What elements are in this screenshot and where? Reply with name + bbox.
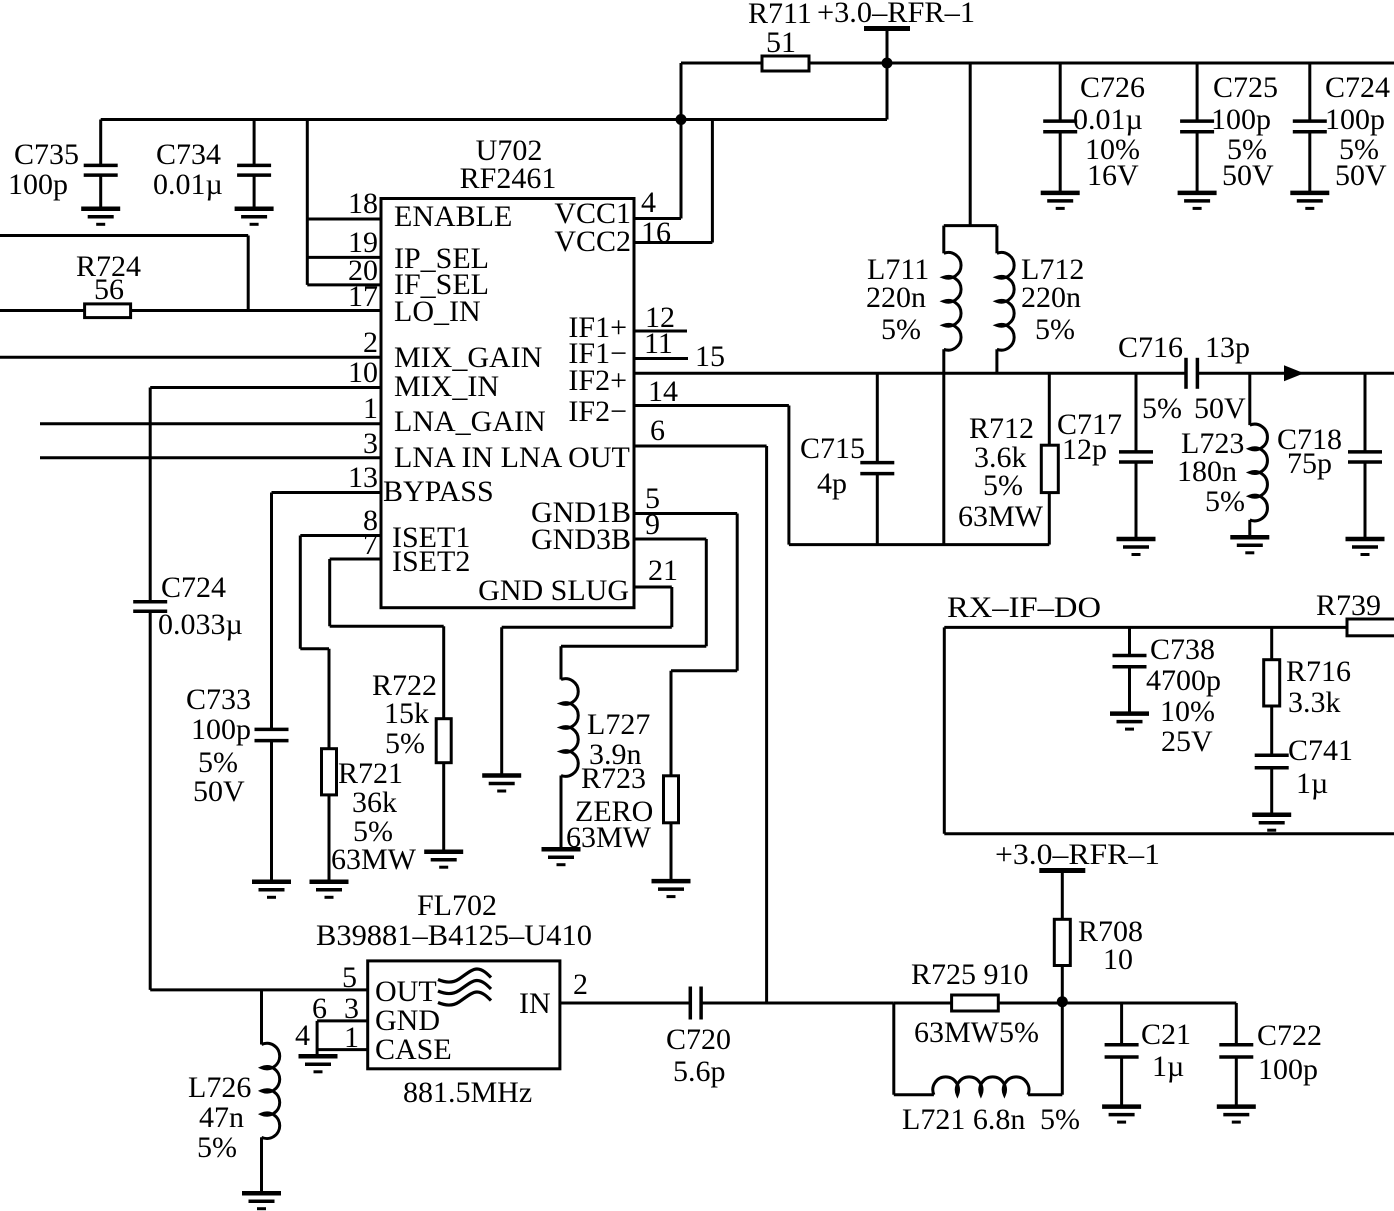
svg-text:1: 1 — [363, 392, 378, 425]
pin name LNA_GAIN — [394, 405, 546, 438]
capacitor C21 — [1105, 1003, 1191, 1107]
svg-text:50V: 50V — [1194, 392, 1246, 425]
wire MIX_IN pin10 — [150, 388, 381, 602]
svg-text:50V: 50V — [1222, 159, 1274, 192]
svg-text:100p: 100p — [1325, 103, 1385, 136]
svg-text:2: 2 — [363, 326, 378, 359]
svg-text:IN: IN — [519, 987, 551, 1020]
wire inductor feed — [944, 63, 997, 226]
svg-text:5%: 5% — [881, 313, 921, 346]
svg-text:C724: C724 — [161, 571, 226, 604]
svg-text:12p: 12p — [1062, 433, 1107, 466]
wire LNA_IN pin3 — [40, 456, 381, 459]
inductor L721 — [894, 1003, 1080, 1136]
svg-text:5%: 5% — [1035, 313, 1075, 346]
pin name OUT — [375, 975, 437, 1008]
svg-text:RF2461: RF2461 — [460, 162, 557, 195]
capacitor C741 — [1255, 734, 1353, 815]
wire LNA OUT pin6 — [634, 446, 767, 1003]
svg-text:17: 17 — [348, 280, 378, 313]
svg-text:MIX_IN: MIX_IN — [394, 370, 499, 403]
pin number 1 (FL702) — [344, 1021, 359, 1054]
junction dot R708/L721 — [1057, 996, 1068, 1007]
resistor R725 — [894, 958, 1063, 1049]
pin number 11 — [644, 327, 673, 360]
svg-text:0.01µ: 0.01µ — [1073, 103, 1143, 136]
svg-text:IF2+: IF2+ — [568, 364, 627, 397]
wire IF bottom rail — [789, 543, 1049, 546]
svg-text:R716: R716 — [1286, 655, 1351, 688]
svg-text:50V: 50V — [1335, 159, 1387, 192]
svg-text:180n: 180n — [1177, 455, 1237, 488]
pin name IF1+ — [568, 311, 627, 344]
svg-text:C735: C735 — [14, 138, 79, 171]
svg-text:5%: 5% — [197, 1131, 237, 1164]
wire IF2- pin14 — [634, 406, 789, 545]
filter FL702 box — [316, 889, 592, 1109]
wire IF1- pin11 stub — [634, 357, 688, 360]
pin number 5 — [645, 482, 660, 515]
wire VCC2 riser — [711, 120, 714, 243]
resistor R712 — [958, 373, 1058, 544]
resistor R721 — [322, 649, 417, 882]
pin name MIX_IN — [394, 370, 499, 403]
svg-text:L721 6.8n: L721 6.8n — [902, 1103, 1025, 1136]
svg-text:100p: 100p — [191, 713, 251, 746]
inductor L723 — [1177, 373, 1267, 537]
svg-text:18: 18 — [348, 187, 378, 220]
pin number 3 (FL702) — [344, 992, 359, 1025]
power symbol +3.0-RFR-1 bottom — [995, 838, 1160, 919]
pin name MIX_GAIN — [394, 341, 542, 374]
svg-text:63MW: 63MW — [958, 500, 1044, 533]
wire IN pin2 line — [560, 1002, 690, 1005]
capacitor C724 (0.033u) — [133, 571, 243, 990]
pin name GND SLUG — [478, 574, 629, 607]
svg-text:L726: L726 — [188, 1071, 251, 1104]
pin number 3 — [363, 427, 378, 460]
ground under C21 — [1102, 1107, 1141, 1123]
svg-text:15k: 15k — [384, 697, 429, 730]
svg-text:ENABLE: ENABLE — [394, 200, 512, 233]
node RX-IF-DO box — [944, 591, 1394, 834]
svg-text:5%: 5% — [983, 469, 1023, 502]
svg-text:16V: 16V — [1087, 159, 1139, 192]
pin number 9 — [645, 508, 660, 541]
wire LO_IN upper branch — [0, 236, 248, 311]
pin name GND3B — [531, 523, 631, 556]
capacitor C724 (100p) — [1293, 63, 1390, 193]
pin number 18 — [348, 187, 378, 220]
svg-text:13: 13 — [348, 461, 378, 494]
ground under pin21 — [482, 776, 521, 792]
svg-text:C734: C734 — [156, 138, 221, 171]
pin number 14 — [648, 375, 678, 408]
wire pin19 stub — [307, 256, 381, 259]
wire IF2+ main IF line — [634, 372, 1394, 375]
svg-text:GND3B: GND3B — [531, 523, 631, 556]
ground under C722 — [1217, 1107, 1256, 1123]
wire OUT pin5 line — [150, 988, 368, 991]
svg-text:7: 7 — [363, 528, 378, 561]
resistor R724 — [0, 250, 381, 318]
wire pin20 stub — [307, 283, 381, 286]
svg-text:LNA IN LNA OUT: LNA IN LNA OUT — [394, 441, 630, 474]
pin number 6 (FL702) — [312, 992, 327, 1025]
svg-text:14: 14 — [648, 375, 678, 408]
capacitor C734 — [153, 120, 271, 209]
wire enable bus drop — [306, 120, 309, 285]
pin name ISET1 — [392, 521, 470, 554]
svg-text:C733: C733 — [186, 683, 251, 716]
junction dot at rail/power — [882, 58, 893, 69]
svg-text:C738: C738 — [1150, 633, 1215, 666]
pin name LO_IN — [394, 295, 481, 328]
pin number 4 (FL702) — [295, 1019, 310, 1052]
ground FL702 case — [299, 1056, 338, 1072]
wire VCC distribution line — [101, 118, 887, 121]
svg-text:5%: 5% — [385, 727, 425, 760]
ground under C741 — [1252, 815, 1291, 831]
ground under C735 — [81, 209, 120, 225]
ground under C718 — [1346, 539, 1385, 555]
pin number 21 — [648, 554, 678, 587]
ground under C725 — [1178, 193, 1217, 209]
pin name GND — [375, 1004, 440, 1037]
svg-text:4700p: 4700p — [1146, 664, 1221, 697]
ground under C734 — [235, 209, 274, 225]
svg-text:C725: C725 — [1213, 71, 1278, 104]
wire GND3B pin9 — [561, 539, 706, 646]
svg-text:5%: 5% — [1205, 485, 1245, 518]
wire MIX_GAIN pin2 — [0, 356, 381, 359]
resistor R711 — [748, 0, 812, 71]
svg-text:50V: 50V — [193, 775, 245, 808]
pin name GND1B — [531, 496, 631, 529]
wire GND SLUG pin21 — [502, 587, 672, 776]
svg-text:C715: C715 — [800, 432, 865, 465]
svg-text:2: 2 — [573, 968, 588, 1001]
capacitor C718 — [1277, 373, 1382, 539]
svg-text:4: 4 — [641, 186, 656, 219]
svg-text:47n: 47n — [199, 1101, 244, 1134]
svg-text:0.033µ: 0.033µ — [158, 608, 243, 641]
pin name VCC2 — [554, 225, 631, 258]
ground under L723 — [1230, 537, 1269, 553]
pin name IF2- — [568, 395, 627, 428]
resistor R716 — [1264, 627, 1351, 755]
wire to output caps — [1062, 1002, 1236, 1005]
ground under C717 — [1117, 539, 1156, 555]
ground under R721 — [310, 882, 349, 898]
pin name IF2+ — [568, 364, 627, 397]
wire VCC1 pin4 stub — [634, 217, 681, 220]
svg-text:C716: C716 — [1118, 331, 1183, 364]
pin number 10 — [348, 356, 378, 389]
svg-text:220n: 220n — [1021, 281, 1081, 314]
svg-text:C726: C726 — [1080, 71, 1145, 104]
wire top power rail — [681, 62, 1394, 65]
svg-text:15: 15 — [695, 340, 725, 373]
svg-text:100p: 100p — [1211, 103, 1271, 136]
capacitor C735 — [8, 120, 118, 209]
inductor L727 — [561, 646, 650, 849]
pin name IP_SEL — [394, 242, 489, 275]
pin name VCC1 — [554, 197, 631, 230]
capacitor C715 — [800, 373, 894, 544]
pin name LNA IN LNA OUT — [394, 441, 630, 474]
svg-text:51: 51 — [766, 26, 796, 59]
svg-text:L727: L727 — [587, 708, 650, 741]
inductor L712 — [997, 226, 1084, 374]
power symbol +3.0-RFR-1 top — [817, 0, 975, 63]
wire power feed down to VCC line — [886, 63, 889, 120]
arrow on IF line — [1284, 365, 1304, 381]
wire pin18 stub — [307, 218, 381, 221]
svg-text:C722: C722 — [1257, 1019, 1322, 1052]
svg-text:56: 56 — [94, 273, 124, 306]
inductor L726 — [188, 990, 280, 1193]
pin name ENABLE — [394, 200, 512, 233]
ground under C726 — [1041, 193, 1080, 209]
svg-text:5%: 5% — [1040, 1103, 1080, 1136]
pin name ISET2 — [392, 545, 470, 578]
svg-text:IF2−: IF2− — [568, 395, 627, 428]
pin number 15 — [695, 340, 725, 373]
pin name BYPASS — [383, 475, 494, 508]
pin number 8 — [363, 504, 378, 537]
svg-text:881.5MHz: 881.5MHz — [403, 1076, 532, 1109]
pin number 19 — [348, 226, 378, 259]
svg-text:5.6p: 5.6p — [673, 1055, 726, 1088]
wire VCC2 pin16 stub — [634, 241, 712, 244]
inductor L711 — [866, 226, 961, 545]
svg-text:10: 10 — [348, 356, 378, 389]
svg-text:+3.0–RFR–1: +3.0–RFR–1 — [817, 0, 975, 29]
svg-text:FL702: FL702 — [417, 889, 497, 922]
svg-text:3.9n: 3.9n — [589, 738, 642, 771]
svg-text:16: 16 — [641, 216, 671, 249]
pin number 5 (FL702) — [342, 961, 357, 994]
svg-text:63MW: 63MW — [331, 843, 417, 876]
wire LNA_GAIN pin1 — [40, 422, 381, 425]
filter wave symbol — [438, 969, 491, 1005]
svg-text:220n: 220n — [866, 281, 926, 314]
svg-text:10: 10 — [1103, 943, 1133, 976]
wire ISET1 pin8 — [300, 536, 381, 649]
svg-text:5%: 5% — [1142, 392, 1182, 425]
svg-text:BYPASS: BYPASS — [383, 475, 494, 508]
pin number 4 — [641, 186, 656, 219]
wire GND1B pin5 — [634, 514, 737, 671]
svg-text:LO_IN: LO_IN — [394, 295, 481, 328]
pin number 1 — [363, 392, 378, 425]
svg-text:+3.0–RFR–1: +3.0–RFR–1 — [995, 838, 1160, 871]
svg-text:1µ: 1µ — [1152, 1050, 1184, 1083]
capacitor C720 (series) — [666, 987, 731, 1089]
wire IF1+ pin12 stub — [634, 330, 687, 333]
pin number 12 — [645, 301, 675, 334]
pin number 17 — [348, 280, 378, 313]
svg-text:RX–IF–DO: RX–IF–DO — [947, 591, 1101, 624]
svg-text:10%: 10% — [1160, 695, 1215, 728]
svg-text:VCC2: VCC2 — [554, 225, 631, 258]
svg-text:C724: C724 — [1325, 71, 1390, 104]
pin number 6 — [650, 414, 665, 447]
pin name IF1- — [568, 337, 627, 370]
wire ISET2 pin7 — [330, 559, 444, 626]
svg-text:1µ: 1µ — [1296, 767, 1328, 800]
svg-text:C741: C741 — [1288, 734, 1353, 767]
wire VCC1 riser — [680, 63, 683, 219]
capacitor C717 — [1057, 373, 1153, 539]
ground under C724 (100p) — [1290, 193, 1329, 209]
svg-text:6: 6 — [650, 414, 665, 447]
resistor R723 — [566, 671, 679, 881]
pin name IN — [519, 987, 551, 1020]
svg-text:63MW5%: 63MW5% — [914, 1016, 1039, 1049]
svg-text:CASE: CASE — [375, 1033, 452, 1066]
svg-text:21: 21 — [648, 554, 678, 587]
pin number 2 — [363, 326, 378, 359]
capacitor C738 — [1113, 627, 1222, 758]
svg-text:R725 910: R725 910 — [911, 958, 1029, 991]
capacitor C716 (series) — [1118, 331, 1250, 425]
junction dot VCC line — [676, 114, 687, 125]
svg-text:4: 4 — [295, 1019, 310, 1052]
svg-text:3: 3 — [363, 427, 378, 460]
wire BYPASS pin13 — [272, 493, 382, 730]
svg-text:LNA_GAIN: LNA_GAIN — [394, 405, 546, 438]
svg-text:R739: R739 — [1316, 589, 1381, 622]
pin name IF_SEL — [394, 268, 489, 301]
resistor R708 — [1054, 915, 1143, 1002]
ground under L727 — [542, 849, 581, 865]
pin number 2 (FL702) — [573, 968, 588, 1001]
wire GND/CASE bracket — [317, 1021, 368, 1056]
svg-text:25V: 25V — [1161, 725, 1213, 758]
ground under R723 — [652, 881, 691, 897]
pin number 20 — [348, 254, 378, 287]
svg-text:GND SLUG: GND SLUG — [478, 574, 629, 607]
ground under R722 — [424, 852, 463, 868]
pin number 16 — [641, 216, 671, 249]
wire after C720 — [701, 1002, 894, 1005]
svg-text:100p: 100p — [8, 168, 68, 201]
svg-text:75p: 75p — [1287, 447, 1332, 480]
capacitor C725 — [1180, 63, 1278, 193]
svg-text:3.3k: 3.3k — [1288, 686, 1341, 719]
ground under L726 — [242, 1193, 281, 1209]
svg-text:C21: C21 — [1141, 1018, 1191, 1051]
pin name CASE — [375, 1033, 452, 1066]
capacitor C726 — [1043, 63, 1145, 193]
capacitor C722 — [1219, 1003, 1322, 1107]
resistor R722 — [372, 626, 451, 851]
ground under C733 — [252, 882, 291, 898]
pin number 7 — [363, 528, 378, 561]
svg-text:13p: 13p — [1205, 331, 1250, 364]
svg-text:4p: 4p — [817, 467, 847, 500]
svg-text:C720: C720 — [666, 1023, 731, 1056]
svg-text:ISET2: ISET2 — [392, 545, 470, 578]
capacitor C733 — [186, 683, 289, 882]
pin number 13 — [348, 461, 378, 494]
ground under C738 — [1110, 714, 1149, 730]
IC U702 RF2461 box — [381, 134, 634, 608]
svg-text:0.01µ: 0.01µ — [153, 168, 223, 201]
resistor R739 — [1316, 589, 1394, 636]
svg-text:B39881–B4125–U410: B39881–B4125–U410 — [316, 919, 592, 952]
svg-text:100p: 100p — [1258, 1053, 1318, 1086]
